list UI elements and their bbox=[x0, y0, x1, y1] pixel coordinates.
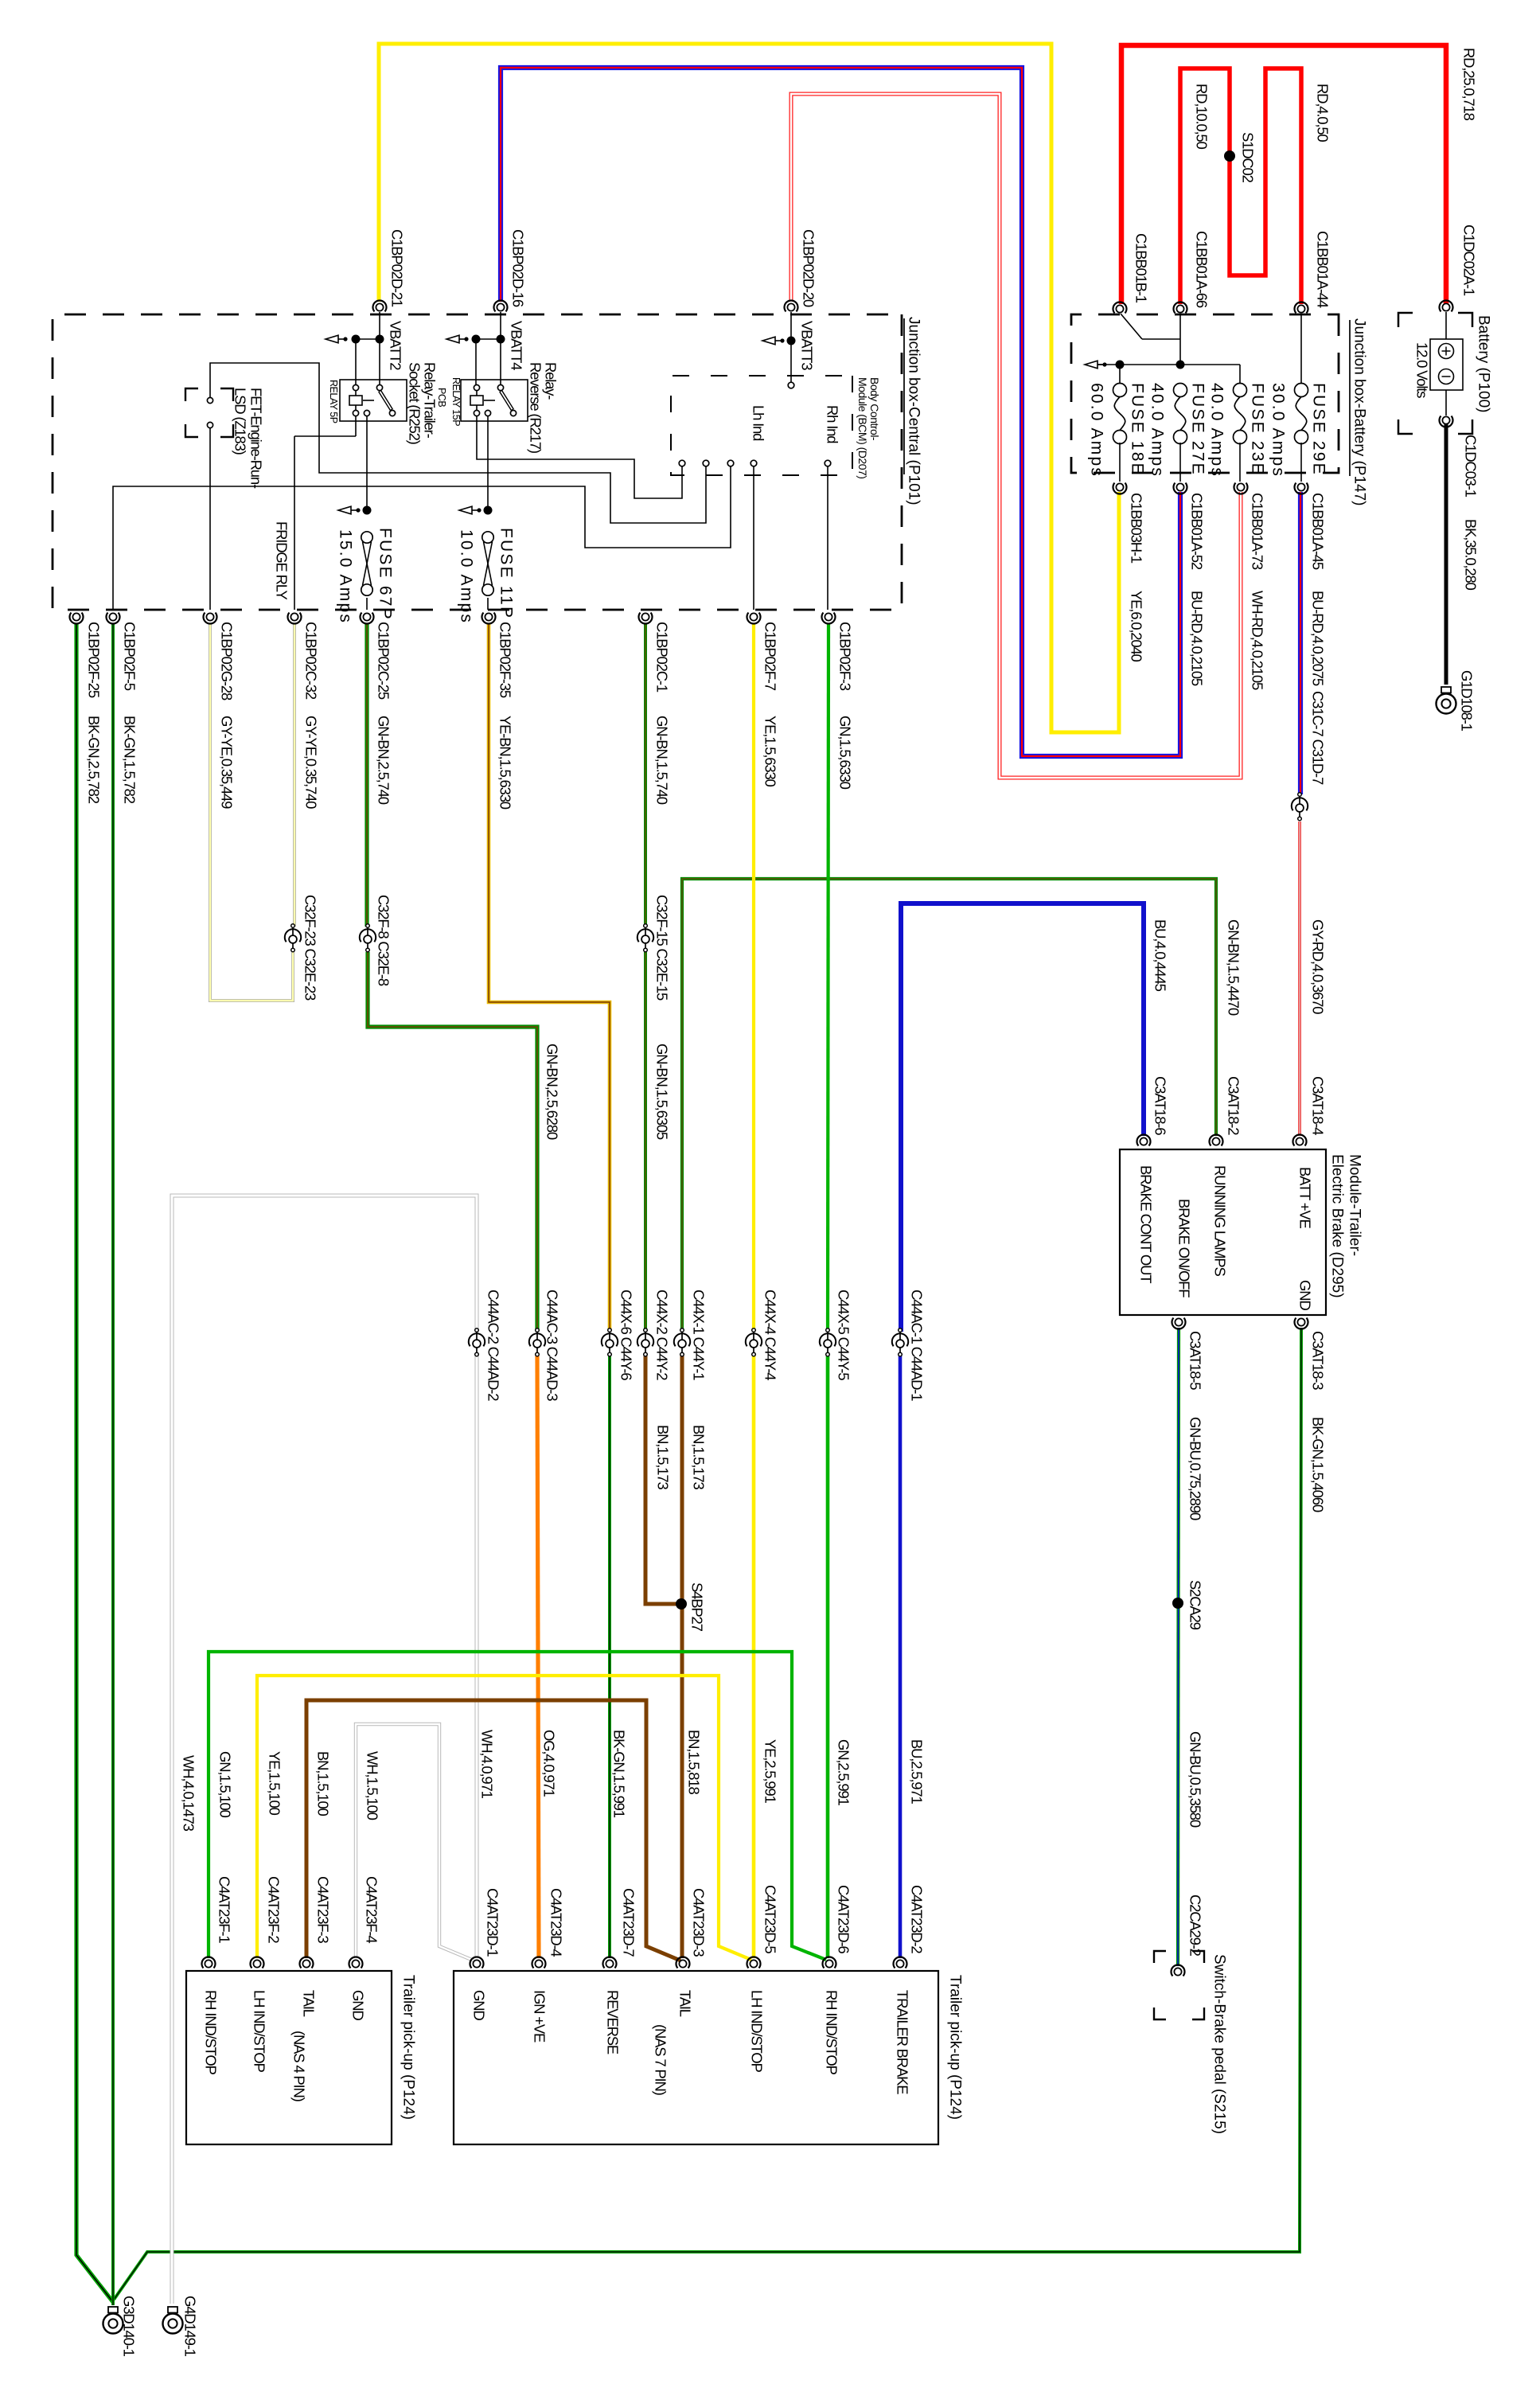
svg-text:C44X-6 C44Y-6: C44X-6 C44Y-6 bbox=[618, 1290, 635, 1380]
svg-text:Lh Ind: Lh Ind bbox=[751, 405, 767, 441]
svg-text:Socket (R252): Socket (R252) bbox=[407, 362, 423, 445]
svg-text:S1DC02: S1DC02 bbox=[1240, 132, 1257, 183]
svg-text:Junction box-Battery (P147): Junction box-Battery (P147) bbox=[1351, 318, 1368, 506]
svg-text:BK-GN,1.5,991: BK-GN,1.5,991 bbox=[611, 1730, 628, 1818]
svg-text:PCB: PCB bbox=[436, 388, 447, 407]
svg-text:BRAKE ON/OFF: BRAKE ON/OFF bbox=[1176, 1199, 1193, 1297]
svg-text:C1BP02F-5: C1BP02F-5 bbox=[122, 622, 138, 691]
svg-text:C1BB01A-66: C1BB01A-66 bbox=[1194, 231, 1211, 308]
svg-text:G3D140-1: G3D140-1 bbox=[121, 2296, 138, 2357]
svg-text:60.0 Amps: 60.0 Amps bbox=[1088, 383, 1106, 478]
svg-text:C3AT18-3: C3AT18-3 bbox=[1310, 1331, 1327, 1390]
svg-text:GN,1.5,100: GN,1.5,100 bbox=[217, 1751, 234, 1818]
svg-text:IGN +VE: IGN +VE bbox=[532, 1990, 548, 2043]
svg-text:C1BP02D-16: C1BP02D-16 bbox=[510, 229, 527, 307]
svg-text:BU,2.5,971: BU,2.5,971 bbox=[909, 1739, 926, 1804]
svg-text:FUSE 29E: FUSE 29E bbox=[1310, 383, 1328, 476]
svg-text:C4AT23F-4: C4AT23F-4 bbox=[364, 1876, 380, 1943]
svg-text:GN-BN,1.5,740: GN-BN,1.5,740 bbox=[654, 716, 671, 805]
svg-text:BK,35.0,280: BK,35.0,280 bbox=[1463, 519, 1480, 591]
svg-text:BU-RD,4.0,2075: BU-RD,4.0,2075 bbox=[1310, 591, 1327, 686]
svg-text:GN-BU,0.5,3580: GN-BU,0.5,3580 bbox=[1187, 1731, 1204, 1828]
svg-text:RELAY 5P: RELAY 5P bbox=[328, 380, 339, 423]
svg-text:Body Control-: Body Control- bbox=[868, 377, 881, 441]
svg-text:Relay-Trailer-: Relay-Trailer- bbox=[422, 362, 439, 439]
svg-text:C1BP02F-7: C1BP02F-7 bbox=[762, 622, 779, 691]
svg-text:C31C-7 C31D-7: C31C-7 C31D-7 bbox=[1310, 691, 1327, 785]
svg-text:C44X-2 C44Y-2: C44X-2 C44Y-2 bbox=[654, 1290, 671, 1380]
svg-text:C1BP02F-35: C1BP02F-35 bbox=[497, 622, 514, 698]
svg-text:C44X-5 C44Y-5: C44X-5 C44Y-5 bbox=[836, 1290, 852, 1380]
svg-text:C44X-1 C44Y-1: C44X-1 C44Y-1 bbox=[691, 1290, 708, 1380]
svg-text:C1BP02C-25: C1BP02C-25 bbox=[376, 622, 392, 700]
svg-text:C32F-8 C32E-8: C32F-8 C32E-8 bbox=[376, 895, 392, 986]
svg-text:C32F-15 C32E-15: C32F-15 C32E-15 bbox=[654, 895, 671, 1001]
svg-text:C1BP02F-25: C1BP02F-25 bbox=[86, 622, 103, 698]
svg-text:GN,2.5,991: GN,2.5,991 bbox=[836, 1739, 852, 1806]
svg-text:C44X-4 C44Y-4: C44X-4 C44Y-4 bbox=[762, 1290, 779, 1380]
svg-text:Electric Brake (D295): Electric Brake (D295) bbox=[1329, 1154, 1346, 1298]
svg-text:GN-BN,1.5,4470: GN-BN,1.5,4470 bbox=[1226, 919, 1242, 1016]
svg-text:YE,2.5,991: YE,2.5,991 bbox=[762, 1739, 779, 1803]
svg-text:FUSE 27E: FUSE 27E bbox=[1189, 383, 1207, 476]
svg-text:Rh Ind: Rh Ind bbox=[825, 405, 841, 443]
svg-text:(NAS 7 PIN): (NAS 7 PIN) bbox=[653, 2024, 669, 2096]
svg-text:C1BB03H-1: C1BB03H-1 bbox=[1129, 493, 1145, 564]
svg-text:FUSE 18E: FUSE 18E bbox=[1129, 383, 1147, 476]
svg-text:G1D108-1: G1D108-1 bbox=[1459, 670, 1476, 732]
svg-text:WH-RD,4.0,2105: WH-RD,4.0,2105 bbox=[1250, 591, 1266, 690]
svg-text:C2CA29-2: C2CA29-2 bbox=[1187, 1894, 1204, 1957]
svg-text:VBATT3: VBATT3 bbox=[799, 321, 816, 370]
svg-text:C1BB01A-73: C1BB01A-73 bbox=[1250, 493, 1266, 570]
svg-text:FUSE 67P: FUSE 67P bbox=[376, 528, 395, 621]
svg-text:Junction box-Central (P101): Junction box-Central (P101) bbox=[906, 317, 922, 505]
svg-text:YE,1.5,6330: YE,1.5,6330 bbox=[762, 716, 779, 787]
svg-text:WH,4.0,971: WH,4.0,971 bbox=[479, 1730, 496, 1799]
svg-text:C44AC-2 C44AD-2: C44AC-2 C44AD-2 bbox=[485, 1290, 502, 1401]
svg-text:BN,1.5,818: BN,1.5,818 bbox=[686, 1730, 703, 1794]
svg-text:GN-BN,2.5,740: GN-BN,2.5,740 bbox=[376, 716, 392, 805]
svg-text:C3AT18-4: C3AT18-4 bbox=[1310, 1076, 1327, 1135]
svg-text:WH,1.5,100: WH,1.5,100 bbox=[365, 1751, 381, 1820]
svg-text:WH,4.0,1473: WH,4.0,1473 bbox=[181, 1755, 197, 1832]
svg-text:BK-GN,1.5,782: BK-GN,1.5,782 bbox=[122, 716, 138, 804]
svg-text:GND: GND bbox=[471, 1990, 488, 2020]
svg-text:VBATT2: VBATT2 bbox=[388, 321, 404, 370]
svg-text:C1DC02A-1: C1DC02A-1 bbox=[1461, 224, 1478, 296]
svg-text:C1BP02C-32: C1BP02C-32 bbox=[303, 622, 320, 700]
svg-text:C4AT23D-1: C4AT23D-1 bbox=[485, 1888, 501, 1957]
svg-text:Battery (P100): Battery (P100) bbox=[1476, 315, 1492, 413]
svg-text:10.0 Amps: 10.0 Amps bbox=[458, 529, 476, 624]
svg-text:40.0 Amps: 40.0 Amps bbox=[1148, 383, 1167, 478]
svg-text:C1BP02F-3: C1BP02F-3 bbox=[837, 622, 854, 691]
svg-text:C4AT23D-2: C4AT23D-2 bbox=[909, 1885, 926, 1953]
svg-text:FUSE 11P: FUSE 11P bbox=[497, 528, 516, 619]
svg-text:Module (BCM) (D207): Module (BCM) (D207) bbox=[856, 377, 869, 478]
svg-text:YE,6.0,2040: YE,6.0,2040 bbox=[1129, 591, 1145, 662]
svg-text:Relay-: Relay- bbox=[543, 362, 559, 400]
svg-text:YE-BN,1.5,6330: YE-BN,1.5,6330 bbox=[497, 716, 514, 810]
svg-text:RUNNING LAMPS: RUNNING LAMPS bbox=[1212, 1165, 1229, 1276]
svg-text:VBATT4: VBATT4 bbox=[509, 321, 525, 370]
svg-text:LH IND/STOP: LH IND/STOP bbox=[749, 1990, 766, 2072]
svg-text:FET-Engine-Run-: FET-Engine-Run- bbox=[248, 388, 265, 489]
svg-text:TAIL: TAIL bbox=[677, 1990, 694, 2017]
svg-text:RELAY 15P: RELAY 15P bbox=[450, 377, 462, 426]
svg-text:RH IND/STOP: RH IND/STOP bbox=[203, 1990, 220, 2075]
svg-text:Module-Trailer-: Module-Trailer- bbox=[1347, 1154, 1363, 1256]
svg-text:YE,1.5,100: YE,1.5,100 bbox=[267, 1751, 283, 1815]
svg-text:BU-RD,4.0,2105: BU-RD,4.0,2105 bbox=[1189, 591, 1206, 686]
svg-text:BATT +VE: BATT +VE bbox=[1297, 1167, 1314, 1228]
svg-text:BN,1.5,173: BN,1.5,173 bbox=[691, 1425, 708, 1489]
svg-text:12.0 Volts: 12.0 Volts bbox=[1414, 342, 1431, 398]
svg-text:G4D149-1: G4D149-1 bbox=[182, 2296, 199, 2357]
svg-text:GY-YE,0.35,449: GY-YE,0.35,449 bbox=[219, 716, 236, 809]
svg-text:C1DC03-1: C1DC03-1 bbox=[1463, 435, 1480, 497]
svg-text:RD,25.0,718: RD,25.0,718 bbox=[1461, 48, 1478, 121]
svg-text:C1BP02G-28: C1BP02G-28 bbox=[219, 622, 236, 700]
svg-text:C44AC-3 C44AD-3: C44AC-3 C44AD-3 bbox=[544, 1290, 561, 1401]
svg-text:BN,1.5,100: BN,1.5,100 bbox=[315, 1751, 332, 1816]
svg-text:C1BB01A-52: C1BB01A-52 bbox=[1189, 493, 1206, 570]
svg-text:REVERSE: REVERSE bbox=[605, 1990, 622, 2054]
svg-text:C32F-23 C32E-23: C32F-23 C32E-23 bbox=[302, 895, 319, 1001]
svg-text:GND: GND bbox=[350, 1990, 367, 2020]
svg-text:C4AT23D-5: C4AT23D-5 bbox=[762, 1885, 779, 1953]
svg-text:(NAS 4 PIN): (NAS 4 PIN) bbox=[291, 2031, 308, 2102]
svg-text:GND: GND bbox=[1297, 1280, 1314, 1310]
svg-text:C1BB01B-1: C1BB01B-1 bbox=[1133, 233, 1150, 303]
svg-text:C4AT23F-2: C4AT23F-2 bbox=[266, 1876, 283, 1943]
svg-text:C44AC-1 C44AD-1: C44AC-1 C44AD-1 bbox=[909, 1290, 926, 1401]
svg-text:40.0 Amps: 40.0 Amps bbox=[1208, 383, 1226, 478]
svg-text:C4AT23F-1: C4AT23F-1 bbox=[216, 1876, 233, 1943]
svg-text:TRAILER BRAKE: TRAILER BRAKE bbox=[895, 1990, 911, 2094]
svg-text:C4AT23D-7: C4AT23D-7 bbox=[621, 1888, 637, 1957]
svg-text:RD,4.0,50: RD,4.0,50 bbox=[1315, 84, 1331, 142]
svg-text:FUSE 23E: FUSE 23E bbox=[1249, 383, 1267, 476]
svg-text:C1BP02D-20: C1BP02D-20 bbox=[801, 229, 817, 307]
svg-text:Trailer pick-up (P124): Trailer pick-up (P124) bbox=[947, 1975, 964, 2120]
svg-text:15.0 Amps: 15.0 Amps bbox=[337, 529, 355, 624]
svg-text:C4AT23F-3: C4AT23F-3 bbox=[315, 1876, 332, 1943]
svg-text:RH IND/STOP: RH IND/STOP bbox=[824, 1990, 840, 2075]
svg-text:FRIDGE RLY: FRIDGE RLY bbox=[274, 521, 290, 600]
svg-text:BK-GN,1.5,4060: BK-GN,1.5,4060 bbox=[1310, 1417, 1327, 1512]
svg-text:LSD (Z183): LSD (Z183) bbox=[232, 388, 249, 455]
svg-text:GN-BU,0.75,2890: GN-BU,0.75,2890 bbox=[1187, 1417, 1204, 1520]
svg-text:BN,1.5,173: BN,1.5,173 bbox=[655, 1425, 672, 1489]
svg-text:C1BB01A-45: C1BB01A-45 bbox=[1310, 493, 1327, 570]
svg-text:C3AT18-2: C3AT18-2 bbox=[1226, 1076, 1242, 1135]
svg-text:GY-RD,4.0,3670: GY-RD,4.0,3670 bbox=[1310, 919, 1327, 1014]
svg-text:BK-GN,2.5,782: BK-GN,2.5,782 bbox=[86, 716, 103, 804]
svg-text:OG,4.0,971: OG,4.0,971 bbox=[541, 1730, 558, 1797]
svg-text:GN,1.5,6330: GN,1.5,6330 bbox=[837, 716, 854, 790]
svg-text:C3AT18-5: C3AT18-5 bbox=[1187, 1331, 1204, 1390]
svg-text:TAIL: TAIL bbox=[301, 1990, 318, 2017]
svg-text:C4AT23D-3: C4AT23D-3 bbox=[691, 1888, 708, 1957]
svg-text:RD,10.0,50: RD,10.0,50 bbox=[1194, 84, 1211, 149]
svg-text:Trailer pick-up (P124): Trailer pick-up (P124) bbox=[400, 1975, 417, 2120]
svg-text:C1BP02D-21: C1BP02D-21 bbox=[389, 229, 406, 307]
svg-text:C3AT18-6: C3AT18-6 bbox=[1152, 1076, 1169, 1135]
svg-text:Switch-Brake pedal (S215): Switch-Brake pedal (S215) bbox=[1211, 1954, 1228, 2134]
svg-text:LH IND/STOP: LH IND/STOP bbox=[251, 1990, 268, 2072]
svg-text:BU,4.0,4445: BU,4.0,4445 bbox=[1152, 919, 1169, 992]
svg-text:Reverse (R217): Reverse (R217) bbox=[528, 362, 544, 454]
svg-text:S2CA29: S2CA29 bbox=[1187, 1580, 1204, 1630]
svg-text:30.0 Amps: 30.0 Amps bbox=[1269, 383, 1288, 478]
svg-text:BRAKE CONT OUT: BRAKE CONT OUT bbox=[1138, 1165, 1155, 1283]
svg-text:C1BB01A-44: C1BB01A-44 bbox=[1315, 231, 1331, 308]
svg-text:C1BP02C-1: C1BP02C-1 bbox=[654, 622, 671, 693]
svg-text:GN-BN,2.5,6280: GN-BN,2.5,6280 bbox=[544, 1044, 561, 1140]
svg-text:GY-YE,0.35,740: GY-YE,0.35,740 bbox=[303, 716, 320, 809]
svg-text:S4BP27: S4BP27 bbox=[689, 1582, 706, 1632]
svg-text:C4AT23D-6: C4AT23D-6 bbox=[836, 1885, 852, 1953]
svg-text:C4AT23D-4: C4AT23D-4 bbox=[548, 1888, 565, 1957]
svg-text:GN-BN,1.5,6305: GN-BN,1.5,6305 bbox=[654, 1044, 671, 1140]
